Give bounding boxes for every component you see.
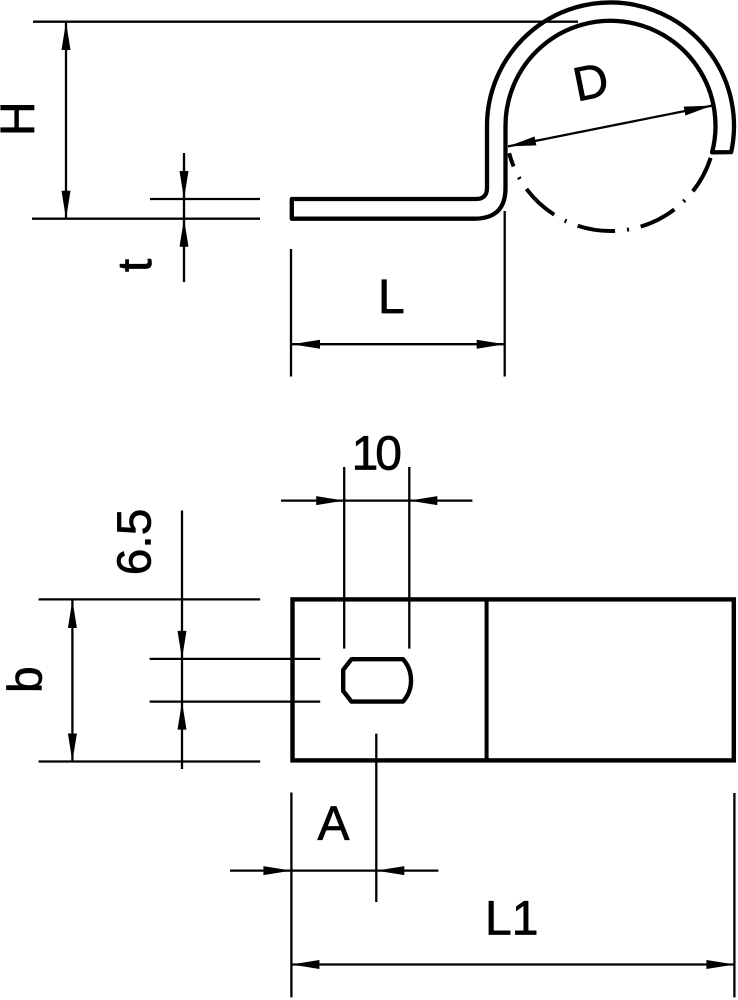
10 arrow pointing left xyxy=(409,496,437,505)
svg-text:L1: L1 xyxy=(485,892,538,945)
svg-text:t: t xyxy=(109,259,162,272)
L right extension line xyxy=(504,211,506,377)
t arrow up xyxy=(180,219,189,247)
dimension L1 line xyxy=(291,963,734,965)
svg-text:A: A xyxy=(317,798,349,851)
L1 arrow right xyxy=(706,960,734,969)
dimension b line xyxy=(71,600,73,762)
t arrow down xyxy=(180,171,189,199)
svg-text:H: H xyxy=(0,101,45,136)
svg-text:10: 10 xyxy=(352,427,401,480)
dimension 10 line xyxy=(281,499,472,501)
H arrow down xyxy=(62,191,71,219)
b top extension line xyxy=(39,598,261,600)
svg-text:L: L xyxy=(378,271,405,324)
b arrow up xyxy=(68,600,77,628)
L arrow right xyxy=(477,340,505,349)
t top extension line xyxy=(150,198,260,200)
dimension H line xyxy=(65,22,67,219)
cable circle D (dash-dot phantom arc) xyxy=(509,147,713,231)
dimension 6.5 line xyxy=(181,511,183,770)
10 left extension line xyxy=(343,467,345,649)
L1 arrow left xyxy=(291,960,319,969)
dimension L line xyxy=(292,343,505,345)
L left extension line xyxy=(290,249,292,377)
top reference line (tangent to cable circle) xyxy=(33,21,578,23)
6.5 arrow down xyxy=(178,631,187,659)
slot centre extension line xyxy=(375,734,377,902)
H arrow up xyxy=(62,22,71,50)
A left extension line (plate edge) xyxy=(290,793,292,998)
plate bend edge line xyxy=(485,599,489,760)
D arrow upper-right xyxy=(684,101,713,115)
L1 right extension line xyxy=(733,793,735,997)
A arrow pointing left xyxy=(376,866,404,875)
dimension A line xyxy=(230,869,438,871)
bottom reference line xyxy=(32,218,260,220)
slot (oblong hole 6.5 x 10) xyxy=(343,659,411,701)
top view: clip plate rectangle xyxy=(293,599,734,760)
L arrow left xyxy=(292,340,320,349)
slot bottom extension line xyxy=(150,700,321,702)
svg-text:b: b xyxy=(0,666,53,693)
A arrow pointing right xyxy=(263,866,291,875)
svg-text:6.5: 6.5 xyxy=(109,509,162,576)
6.5 arrow up xyxy=(178,702,187,730)
slot top extension line xyxy=(150,658,321,660)
b arrow down xyxy=(68,734,77,762)
D arrow lower-left xyxy=(507,137,536,151)
dimension D line (diameter across cable circle) xyxy=(508,106,712,147)
clip strip side view (bent metal band with loop) xyxy=(292,2,734,218)
10 right extension line xyxy=(408,467,410,649)
b bottom extension line xyxy=(39,760,261,762)
10 arrow pointing right xyxy=(316,496,344,505)
dimension t line xyxy=(183,153,185,282)
